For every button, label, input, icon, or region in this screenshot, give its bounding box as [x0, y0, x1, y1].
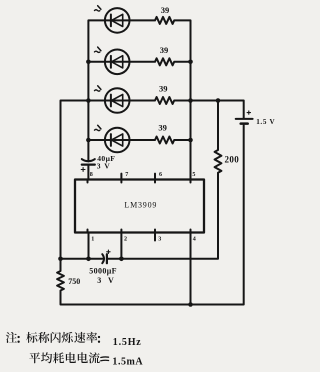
svg-text:750: 750 — [68, 277, 80, 286]
svg-text:5000μF: 5000μF — [89, 267, 117, 276]
svg-text:6: 6 — [159, 172, 162, 178]
svg-text:39: 39 — [160, 45, 169, 55]
svg-text:7: 7 — [125, 172, 128, 178]
svg-text:39: 39 — [161, 5, 170, 15]
svg-text:39: 39 — [158, 122, 167, 132]
svg-text:39: 39 — [159, 84, 168, 94]
svg-text:8: 8 — [90, 172, 93, 178]
svg-text:1.5mA: 1.5mA — [112, 357, 143, 368]
svg-text:LM3909: LM3909 — [124, 200, 157, 209]
svg-text:1.5 V: 1.5 V — [256, 118, 275, 126]
svg-text:3: 3 — [158, 237, 161, 243]
svg-text:4: 4 — [193, 237, 196, 243]
svg-text:5: 5 — [192, 172, 195, 178]
svg-text:1.5Hz: 1.5Hz — [113, 337, 142, 348]
svg-text:200: 200 — [225, 155, 240, 165]
svg-text:3 V: 3 V — [97, 161, 111, 170]
svg-text:2: 2 — [124, 237, 127, 243]
svg-text:1: 1 — [91, 237, 94, 243]
svg-text:3 V: 3 V — [97, 276, 115, 285]
